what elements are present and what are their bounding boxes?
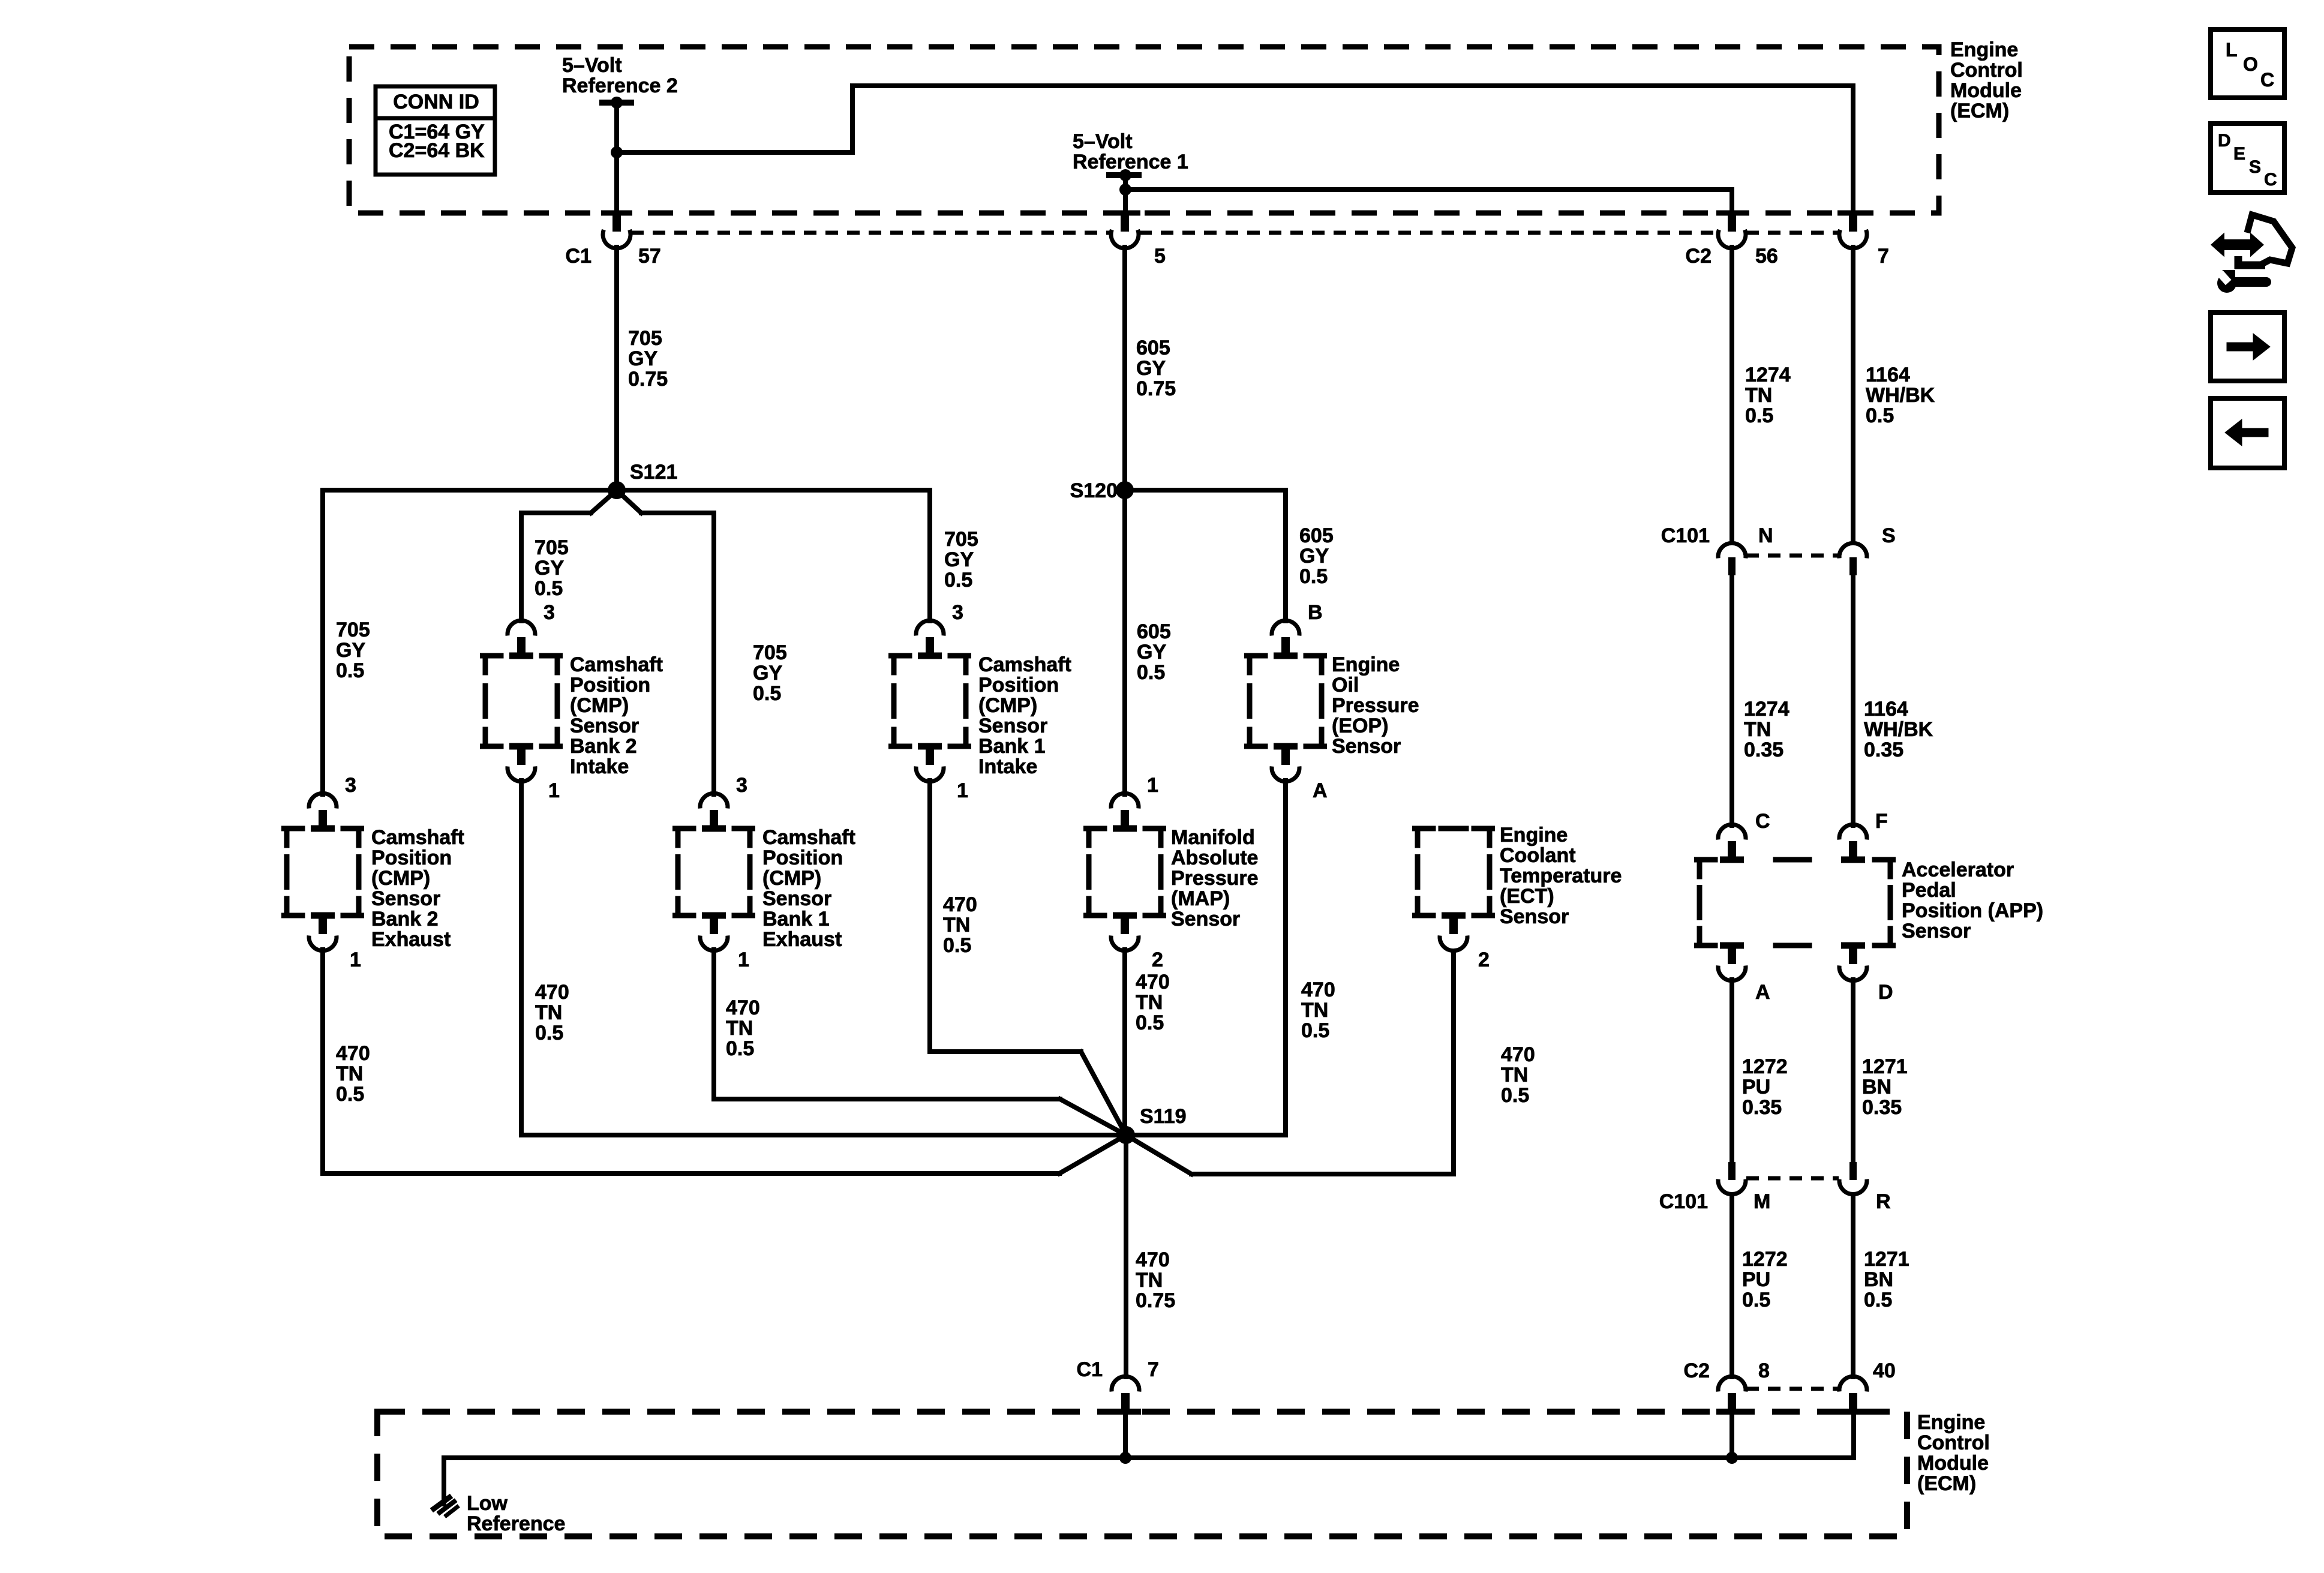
icon: DESC box [2211, 124, 2284, 193]
svg-text:Control: Control [1917, 1431, 1990, 1454]
svg-text:470: 470 [1136, 1248, 1170, 1271]
CMP B2 intake pin 1 connector [508, 748, 535, 782]
connector C2 pin 8 [1716, 1376, 1747, 1415]
label S119 [1140, 1105, 1187, 1128]
label 605 GY 0.75 [1136, 337, 1176, 400]
connector C101 pin N [1718, 543, 1746, 575]
wire 605 GY 0.75 (C1-5 to S120) [1122, 247, 1127, 490]
svg-text:C1: C1 [1077, 1358, 1103, 1381]
svg-text:N: N [1758, 524, 1773, 547]
svg-text:470: 470 [1501, 1043, 1535, 1066]
MAP pin 1 connector [1111, 793, 1139, 827]
label S121 [630, 461, 677, 484]
svg-text:470: 470 [1301, 978, 1335, 1001]
CMP B1 intake pin 3 connector [916, 620, 944, 655]
svg-text:1272: 1272 [1742, 1248, 1788, 1271]
svg-text:D: D [1878, 981, 1893, 1004]
svg-text:0.5: 0.5 [336, 659, 364, 682]
CMP B2 exhaust pin 3 connector [309, 793, 337, 827]
svg-text:Intake: Intake [978, 755, 1037, 778]
pin label B [1308, 601, 1323, 624]
junction: C1-7 at bus [1119, 1452, 1131, 1464]
pin label 2 (ECT) [1478, 948, 1490, 971]
svg-text:705: 705 [535, 536, 569, 559]
svg-text:0.5: 0.5 [1299, 565, 1328, 588]
wire: 5V ref2 branch to pin 7 (right run) [617, 86, 1853, 214]
node: 5-Volt Reference 1 rail bar [1106, 169, 1142, 181]
pin label S [1882, 524, 1896, 547]
svg-text:C1: C1 [566, 245, 591, 268]
label: Engine Oil Pressure (EOP) Sensor [1332, 653, 1419, 758]
wire: S121 branch to CMP B1 exhaust [617, 490, 714, 794]
svg-text:Reference 1: Reference 1 [1073, 151, 1188, 173]
svg-text:GY: GY [535, 557, 564, 580]
svg-text:2: 2 [1478, 948, 1490, 971]
svg-text:BN: BN [1864, 1268, 1893, 1291]
wire: C2-8 into ECM [1730, 1411, 1734, 1458]
svg-text:Position (APP): Position (APP) [1902, 899, 2043, 922]
svg-text:0.75: 0.75 [1136, 377, 1176, 400]
svg-text:470: 470 [336, 1042, 370, 1065]
svg-text:B: B [1308, 601, 1323, 624]
svg-text:TN: TN [726, 1017, 753, 1040]
svg-text:E: E [2233, 144, 2245, 164]
pin label A (APP) [1755, 981, 1770, 1004]
CMP B2 exhaust pin 1 connector [309, 917, 337, 951]
svg-text:D: D [2218, 131, 2231, 151]
svg-text:C: C [1755, 810, 1770, 833]
svg-text:TN: TN [1301, 999, 1328, 1022]
svg-text:0.5: 0.5 [1501, 1084, 1529, 1107]
svg-text:470: 470 [943, 893, 977, 916]
ECM module outline (top) [349, 47, 1939, 213]
EOP pin B connector [1272, 620, 1299, 655]
ECM module outline (bottom) [377, 1412, 1907, 1536]
svg-text:Exhaust: Exhaust [762, 928, 842, 951]
svg-text:Sensor: Sensor [1332, 735, 1401, 758]
svg-text:0.5: 0.5 [535, 1022, 563, 1044]
label 470 TN 0.5 (B2 intake) [535, 981, 569, 1044]
svg-text:40: 40 [1873, 1359, 1896, 1382]
svg-text:PU: PU [1742, 1268, 1770, 1291]
wire 1164 WH/BK 0.35 (C101-S to APP F) [1851, 575, 1855, 825]
label 705 GY 0.5 (B2 intake) [535, 536, 569, 600]
label: Manifold Absolute Pressure (MAP) Sensor [1171, 826, 1259, 930]
junction: 5V ref1 branch [1119, 184, 1131, 196]
APP pin A connector [1718, 947, 1746, 981]
svg-text:0.5: 0.5 [1136, 1011, 1164, 1034]
svg-text:S: S [1882, 524, 1896, 547]
pin label 2 (MAP) [1152, 948, 1163, 971]
svg-text:Position: Position [371, 846, 452, 869]
svg-text:Position: Position [762, 846, 843, 869]
label: Accelerator Pedal Position (APP) Sensor [1902, 858, 2043, 942]
connector line (dotted) ECM top [631, 231, 1839, 235]
svg-text:Bank 2: Bank 2 [570, 735, 637, 758]
svg-text:1271: 1271 [1862, 1055, 1908, 1078]
svg-text:Sensor: Sensor [1171, 908, 1240, 930]
svg-text:R: R [1876, 1190, 1891, 1213]
MAP pin 2 connector [1111, 917, 1139, 951]
connector C2 pin 40 [1837, 1376, 1869, 1415]
svg-text:1164: 1164 [1864, 698, 1908, 721]
svg-text:3: 3 [544, 601, 555, 624]
svg-text:3: 3 [345, 774, 356, 797]
svg-text:Engine: Engine [1917, 1411, 1985, 1434]
svg-text:TN: TN [1501, 1064, 1528, 1086]
svg-text:C101: C101 [1661, 524, 1710, 547]
APP pin F connector [1839, 824, 1867, 858]
svg-text:TN: TN [1136, 991, 1163, 1014]
svg-text:0.35: 0.35 [1862, 1096, 1902, 1119]
connector C1 pin 7 (bottom) [1112, 1376, 1139, 1410]
svg-text:7: 7 [1148, 1358, 1159, 1381]
pin label M [1753, 1190, 1770, 1213]
svg-text:0.5: 0.5 [1864, 1289, 1892, 1311]
svg-text:Low: Low [467, 1492, 508, 1515]
svg-text:1164: 1164 [1866, 364, 1910, 386]
connector line (dotted) C2 bottom [1746, 1387, 1839, 1391]
svg-text:O: O [2243, 53, 2258, 75]
wire 470 TN 0.5 (MAP to S119) [1122, 950, 1127, 1135]
pin label 7 [1878, 245, 1889, 268]
ECT pin 2 connector [1440, 917, 1467, 951]
label 1164 WH/BK 0.5 [1866, 364, 1935, 427]
APP pin C connector [1718, 824, 1746, 858]
label 1164 WH/BK 0.35 [1864, 698, 1933, 761]
svg-text:0.5: 0.5 [1301, 1019, 1329, 1042]
svg-text:5–Volt: 5–Volt [1073, 130, 1133, 153]
pin label F (APP) [1875, 810, 1888, 833]
svg-text:Position: Position [978, 674, 1059, 697]
svg-text:1: 1 [738, 948, 749, 971]
label: Low Reference [467, 1492, 565, 1535]
sensor: Manifold Absolute Pressure (MAP) Sensor (box) [1086, 825, 1164, 919]
svg-text:(ECM): (ECM) [1917, 1472, 1976, 1495]
label 1274 TN 0.5 [1745, 364, 1791, 427]
svg-text:BN: BN [1862, 1076, 1891, 1098]
wire: low reference bus [444, 1455, 1854, 1460]
svg-text:C: C [2264, 170, 2277, 190]
wire 1274 TN 0.5 (C2-56 to C101-N) [1730, 247, 1734, 542]
svg-text:705: 705 [753, 641, 787, 664]
svg-text:Control: Control [1950, 59, 2023, 82]
svg-text:Accelerator: Accelerator [1902, 858, 2014, 881]
svg-text:0.5: 0.5 [944, 569, 972, 592]
svg-text:0.5: 0.5 [336, 1083, 364, 1106]
pin label C2 (bottom) [1684, 1359, 1710, 1382]
svg-text:8: 8 [1758, 1359, 1770, 1382]
svg-text:Pressure: Pressure [1171, 867, 1259, 890]
svg-text:Sensor: Sensor [978, 715, 1047, 737]
svg-text:Camshaft: Camshaft [371, 826, 464, 849]
svg-text:470: 470 [726, 996, 760, 1019]
pin label C1 [566, 245, 591, 268]
connector C1 pin 5 [1109, 211, 1140, 248]
wire 470 TN 0.5 (EOP to S119) [1126, 781, 1286, 1135]
svg-text:Manifold: Manifold [1171, 826, 1255, 849]
svg-text:S120: S120 [1070, 479, 1118, 502]
svg-text:Camshaft: Camshaft [762, 826, 855, 849]
splice S120 [1116, 481, 1134, 499]
connector C1 pin 57 [601, 211, 632, 248]
CMP B1 exhaust pin 3 connector [700, 793, 728, 827]
splice S121 [608, 481, 626, 499]
pin label D (APP) [1878, 981, 1893, 1004]
svg-text:605: 605 [1136, 337, 1170, 359]
wire: 5V ref1 branch to pin 56 [1125, 190, 1732, 214]
svg-text:Temperature: Temperature [1500, 864, 1622, 887]
label S120 [1070, 479, 1118, 502]
label 1271 BN 0.35 [1862, 1055, 1908, 1119]
svg-text:GY: GY [944, 548, 974, 571]
pin label 5 [1154, 245, 1166, 268]
label 470 TN 0.5 (ECT) [1501, 1043, 1535, 1107]
svg-text:0.5: 0.5 [726, 1037, 754, 1060]
label 705 GY 0.75 [628, 327, 668, 391]
EOP pin A connector [1272, 748, 1299, 782]
sensor: Accelerator Pedal Position (APP) Sensor (box) [1697, 857, 1893, 949]
svg-text:TN: TN [943, 914, 970, 936]
label C101 (lower) [1659, 1190, 1708, 1213]
svg-text:Coolant: Coolant [1500, 844, 1576, 867]
wire 605 GY 0.5 (S120 to MAP) [1122, 490, 1127, 794]
svg-text:Sensor: Sensor [1500, 905, 1569, 928]
svg-text:F: F [1875, 810, 1888, 833]
svg-text:0.5: 0.5 [1742, 1289, 1770, 1311]
wire 470 TN 0.75 (S119 to C1-7) [1124, 1135, 1128, 1377]
svg-text:5: 5 [1154, 245, 1166, 268]
wire: S121 left run to CMP B2 exhaust [323, 490, 617, 794]
label 1271 BN 0.5 [1864, 1248, 1909, 1311]
svg-text:Module: Module [1917, 1452, 1989, 1475]
svg-text:56: 56 [1755, 245, 1778, 268]
svg-text:GY: GY [1137, 641, 1166, 664]
svg-text:Sensor: Sensor [371, 887, 440, 910]
pin label 1 (B1 exhaust) [738, 948, 749, 971]
label C101 (upper) [1661, 524, 1710, 547]
svg-text:GY: GY [628, 347, 657, 370]
connector line (dotted) C101 lower [1746, 1176, 1839, 1181]
node: 5-Volt Reference 2 label [562, 54, 678, 97]
label: Engine Coolant Temperature (ECT) Sensor [1500, 824, 1622, 928]
svg-text:0.35: 0.35 [1744, 739, 1783, 761]
svg-text:3: 3 [952, 601, 963, 624]
svg-text:Intake: Intake [570, 755, 629, 778]
APP pin D connector [1839, 947, 1867, 981]
pin label A (EOP) [1313, 779, 1328, 802]
sensor: Engine Oil Pressure (EOP) Sensor (box) [1247, 653, 1325, 750]
pin label 1 (B2 exhaust) [350, 948, 361, 971]
svg-text:1: 1 [957, 779, 968, 802]
pin label C1 (bottom) [1077, 1358, 1103, 1381]
wire 1271 BN 0.5 (C101-R to C2-40) [1851, 1194, 1855, 1377]
connector C101 pin M [1718, 1162, 1746, 1194]
connector C2 pin 7 [1837, 211, 1869, 248]
svg-text:5–Volt: 5–Volt [562, 54, 622, 77]
icon: previous view (left arrow) box [2211, 398, 2284, 468]
sensor: Camshaft Position (CMP) Sensor Bank 2 Intake (box) [483, 653, 560, 750]
connector line (dotted) C101 upper [1746, 554, 1839, 558]
svg-text:S: S [2249, 157, 2261, 177]
sensor: Camshaft Position (CMP) Sensor Bank 1 Exhaust (box) [675, 825, 753, 919]
pin label N [1758, 524, 1773, 547]
svg-text:0.5: 0.5 [943, 934, 971, 957]
svg-text:Sensor: Sensor [570, 715, 639, 737]
pin label 8 [1758, 1359, 1770, 1382]
svg-text:705: 705 [628, 327, 662, 350]
svg-text:WH/BK: WH/BK [1866, 384, 1935, 407]
svg-text:C2: C2 [1686, 245, 1712, 268]
label: CMP Sensor Bank 2 Exhaust [371, 826, 464, 951]
svg-text:C101: C101 [1659, 1190, 1708, 1213]
CMP B1 exhaust pin 1 connector [700, 917, 728, 951]
svg-text:Engine: Engine [1950, 38, 2018, 61]
wire 705 GY 0.75 (C1-57 to S121) [614, 247, 619, 490]
svg-text:TN: TN [336, 1062, 363, 1085]
sensor: Engine Coolant Temperature (ECT) Sensor (box) [1415, 828, 1493, 919]
junction: C2-8 at bus [1726, 1452, 1738, 1464]
wire: S121 right run to CMP B1 intake [617, 490, 930, 621]
svg-text:GY: GY [336, 639, 365, 662]
svg-text:0.5: 0.5 [753, 682, 781, 705]
svg-text:C2: C2 [1684, 1359, 1710, 1382]
svg-text:(CMP): (CMP) [978, 694, 1037, 717]
svg-text:Camshaft: Camshaft [978, 653, 1071, 676]
svg-text:A: A [1755, 981, 1770, 1004]
pin label 1 (MAP) [1147, 774, 1158, 797]
label 470 TN 0.5 (MAP) [1136, 971, 1170, 1034]
splice S119 [1117, 1126, 1135, 1144]
label 470 TN 0.75 [1136, 1248, 1175, 1312]
pin label 1 (B2 intake) [548, 779, 560, 802]
wire: S121 branch to CMP B2 intake [521, 490, 617, 621]
svg-text:(ECT): (ECT) [1500, 885, 1554, 908]
svg-text:TN: TN [1745, 384, 1772, 407]
pin label C (APP) [1755, 810, 1770, 833]
sensor: Camshaft Position (CMP) Sensor Bank 1 Intake (box) [891, 653, 969, 750]
svg-text:1274: 1274 [1744, 698, 1789, 721]
label: CMP Sensor Bank 1 Exhaust [762, 826, 855, 951]
label: Engine Control Module (ECM) top [1950, 38, 2023, 122]
svg-text:1271: 1271 [1864, 1248, 1909, 1271]
svg-text:Exhaust: Exhaust [371, 928, 451, 951]
svg-text:57: 57 [638, 245, 661, 268]
svg-text:GY: GY [1299, 545, 1329, 568]
wire 1272 PU 0.5 (C101-M to C2-8) [1730, 1194, 1734, 1377]
wire: 5V ref 1 vertical inside ECM [1123, 175, 1128, 214]
svg-text:605: 605 [1299, 524, 1334, 547]
svg-text:(CMP): (CMP) [762, 867, 821, 890]
wire: C1-7 into ECM [1123, 1411, 1128, 1458]
label 705 GY 0.5 (B1 intake) [944, 528, 978, 592]
svg-text:1: 1 [350, 948, 361, 971]
label 605 GY 0.5 (MAP) [1137, 620, 1171, 684]
label 705 GY 0.5 (B1 exhaust) [753, 641, 787, 705]
svg-text:M: M [1753, 1190, 1770, 1213]
wire: S120 to EOP sensor [1125, 490, 1286, 621]
sensor: Camshaft Position (CMP) Sensor Bank 2 Exhaust (box) [284, 825, 362, 919]
svg-text:0.5: 0.5 [1745, 404, 1773, 427]
icon: LOC box [2211, 29, 2284, 98]
svg-text:C: C [2260, 69, 2274, 91]
CMP B1 intake pin 1 connector [916, 748, 944, 782]
svg-text:0.35: 0.35 [1742, 1096, 1782, 1119]
svg-text:Reference: Reference [467, 1512, 565, 1535]
label 705 GY 0.5 (B2 exhaust) [336, 619, 370, 682]
wire 470 TN 0.5 (B2 exhaust to S119) [323, 950, 1126, 1173]
svg-text:Pedal: Pedal [1902, 879, 1956, 902]
wire: 5V ref 2 vertical inside ECM [614, 104, 619, 214]
pin label 57 [638, 245, 661, 268]
label: Engine Control Module (ECM) bottom [1917, 1411, 1990, 1495]
svg-text:Bank 2: Bank 2 [371, 908, 439, 930]
svg-text:1274: 1274 [1745, 364, 1791, 386]
svg-text:Pressure: Pressure [1332, 694, 1419, 717]
svg-text:0.5: 0.5 [1866, 404, 1894, 427]
label: CMP Sensor Bank 1 Intake [978, 653, 1071, 778]
svg-text:3: 3 [736, 774, 747, 797]
label 470 TN 0.5 (B2 exhaust) [336, 1042, 370, 1106]
svg-text:Oil: Oil [1332, 674, 1359, 697]
svg-text:GY: GY [1136, 357, 1166, 380]
pin label 3 (B1 exhaust) [736, 774, 747, 797]
svg-text:Reference 2: Reference 2 [562, 74, 678, 97]
pin label 3 (B2 intake) [544, 601, 555, 624]
svg-text:L: L [2226, 39, 2238, 61]
wire 1274 TN 0.35 (C101-N to APP C) [1730, 575, 1734, 825]
svg-text:Absolute: Absolute [1171, 846, 1258, 869]
connector C101 pin R [1839, 1162, 1867, 1194]
wire 1272 PU 0.35 (APP A to C101-M) [1730, 980, 1734, 1161]
label 470 TN 0.5 (B1 intake) [943, 893, 977, 957]
svg-text:CONN ID: CONN ID [393, 91, 479, 113]
wire 470 TN 0.5 (B2 intake to S119) [521, 781, 1126, 1135]
svg-text:Module: Module [1950, 79, 2022, 102]
connector C2 pin 56 [1716, 211, 1747, 248]
label 605 GY 0.5 (EOP) [1299, 524, 1334, 588]
label 470 TN 0.5 (EOP) [1301, 978, 1335, 1042]
label: CMP Sensor Bank 2 Intake [570, 653, 663, 778]
svg-text:S121: S121 [630, 461, 677, 484]
wire 470 TN 0.5 (ECT to S119) [1126, 954, 1454, 1174]
pin label 3 (B1 intake) [952, 601, 963, 624]
svg-text:S119: S119 [1140, 1105, 1187, 1128]
pin label 1 (B1 intake) [957, 779, 968, 802]
svg-text:Position: Position [570, 674, 650, 697]
svg-text:1: 1 [1147, 774, 1158, 797]
svg-text:TN: TN [535, 1001, 562, 1024]
svg-text:Sensor: Sensor [762, 887, 831, 910]
svg-text:0.5: 0.5 [1137, 661, 1165, 684]
svg-text:705: 705 [336, 619, 370, 641]
node: 5-Volt Reference 2 rail bar [599, 97, 634, 109]
pin label 56 [1755, 245, 1778, 268]
svg-text:Camshaft: Camshaft [570, 653, 663, 676]
svg-text:705: 705 [944, 528, 978, 551]
T-bar at C1-7 border crossing [1110, 1409, 1141, 1415]
svg-text:GY: GY [753, 662, 782, 685]
wire 1164 WH/BK 0.5 (C2-7 to C101-S) [1851, 247, 1855, 542]
svg-text:Bank 1: Bank 1 [762, 908, 830, 930]
svg-text:Bank 1: Bank 1 [978, 735, 1046, 758]
svg-text:WH/BK: WH/BK [1864, 718, 1933, 741]
svg-text:1272: 1272 [1742, 1055, 1788, 1078]
svg-text:0.75: 0.75 [1136, 1289, 1175, 1312]
CONN ID table [376, 86, 495, 175]
label 470 TN 0.5 (B1 exhaust) [726, 996, 760, 1060]
junction: 5V ref2 branch [611, 146, 623, 158]
